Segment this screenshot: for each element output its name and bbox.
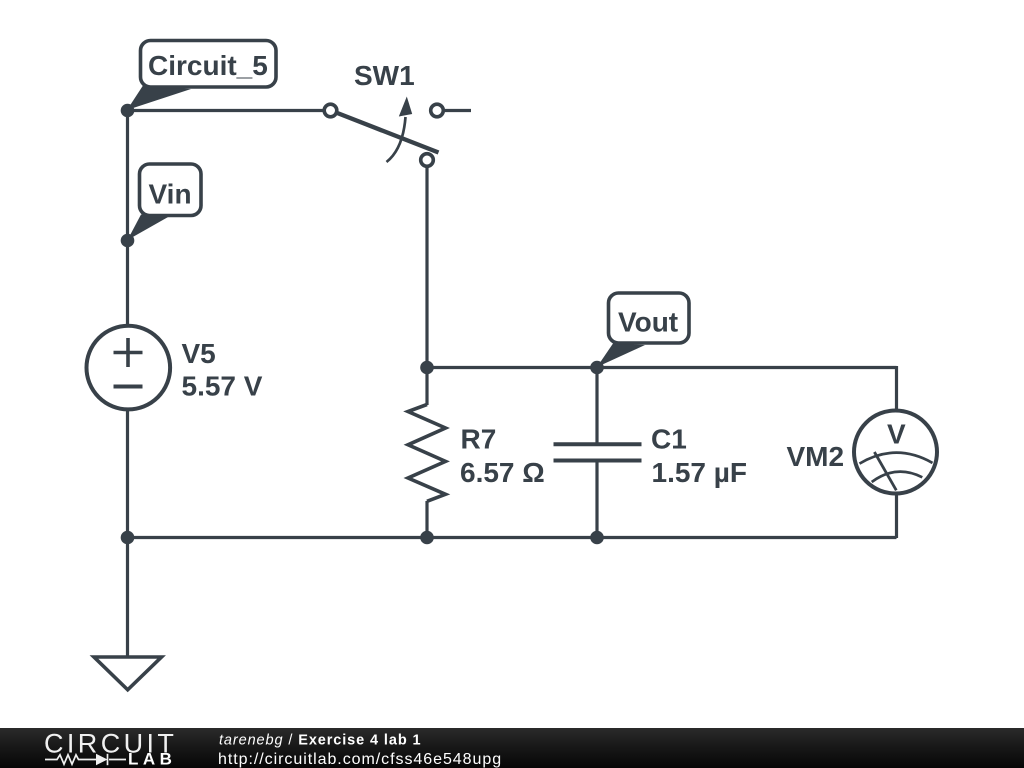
voltmeter VM2 body [854,411,937,494]
svg-text:SW1: SW1 [354,60,415,91]
voltmeter VM2 lower scale arc [872,472,923,482]
svg-text:1.57 µF: 1.57 µF [652,457,748,488]
switch SW1 bottom terminal [421,154,434,167]
svg-text:V: V [887,419,906,450]
svg-text:Circuit_5: Circuit_5 [148,50,268,81]
wire top horizontal node A to SW1 left terminal [126,109,323,112]
switch SW1 left terminal [324,104,337,117]
capacitor C1 top plate [554,442,642,446]
flag Vin box [140,164,202,216]
svg-text:C1: C1 [651,423,687,454]
voltmeter VM2 upper scale arc [860,453,933,464]
svg-text:VM2: VM2 [787,441,845,472]
node Vout dot [590,361,604,375]
svg-text:V5: V5 [182,338,216,369]
wire top mid horizontal rail to VM2 corner [427,366,897,369]
flag Vin pointer [128,215,170,241]
svg-text:http://circuitlab.com/cfss46e5: http://circuitlab.com/cfss46e548upg [218,751,502,768]
flag Vout pointer [597,344,645,368]
switch SW1 actuation arrow [387,117,406,162]
node Vin dot [121,234,135,248]
footer bar [0,728,1024,768]
switch SW1 blade [336,113,439,153]
svg-text:Vout: Vout [618,307,678,338]
capacitor C1 bottom plate [554,459,642,463]
switch SW1 right throw terminal [431,104,444,117]
node A dot [121,104,135,118]
wire Vin node to V5 top [126,241,129,327]
node bottom C1 dot [590,531,604,545]
svg-text:tarenebg / Exercise 4 lab 1: tarenebg / Exercise 4 lab 1 [219,733,421,749]
svg-text:Vin: Vin [149,179,192,210]
svg-text:R7: R7 [461,423,497,454]
wire left vertical node A to Vin node [126,109,129,241]
node bottom-left dot [121,531,135,545]
svg-text:5.57 V: 5.57 V [182,371,263,402]
wire bottom rail [128,536,897,539]
wire C1 bottom lead [595,461,598,538]
node Vout-R7 dot [420,361,434,375]
wire ground drop [126,538,129,658]
footer logo diode triangle [96,754,108,765]
svg-text:LAB: LAB [128,750,176,768]
voltage source V5 [87,326,171,410]
wire R7 bottom lead [425,501,428,538]
switch SW1 arrowhead [399,97,412,117]
voltmeter VM2 needle [874,452,896,490]
wire SW1 bottom terminal down to node [425,167,428,368]
wire V5 bottom to bottom-left corner [126,409,129,538]
flag Circuit_5 box [141,41,277,88]
svg-text:6.57 Ω: 6.57 Ω [460,457,545,488]
wire R7 top lead [425,368,428,406]
resistor R7 [408,405,446,502]
node bottom R7 dot [420,531,434,545]
ground [94,657,162,690]
wire C1 top lead [595,368,598,445]
wire VM2 top lead [895,366,898,410]
flag Vout box [609,293,690,343]
flag Circuit_5 pointer [127,86,191,111]
footer logo resistor-diode line [45,754,126,765]
switch SW1 right stub wire [444,109,472,112]
wire VM2 bottom lead [895,494,898,538]
